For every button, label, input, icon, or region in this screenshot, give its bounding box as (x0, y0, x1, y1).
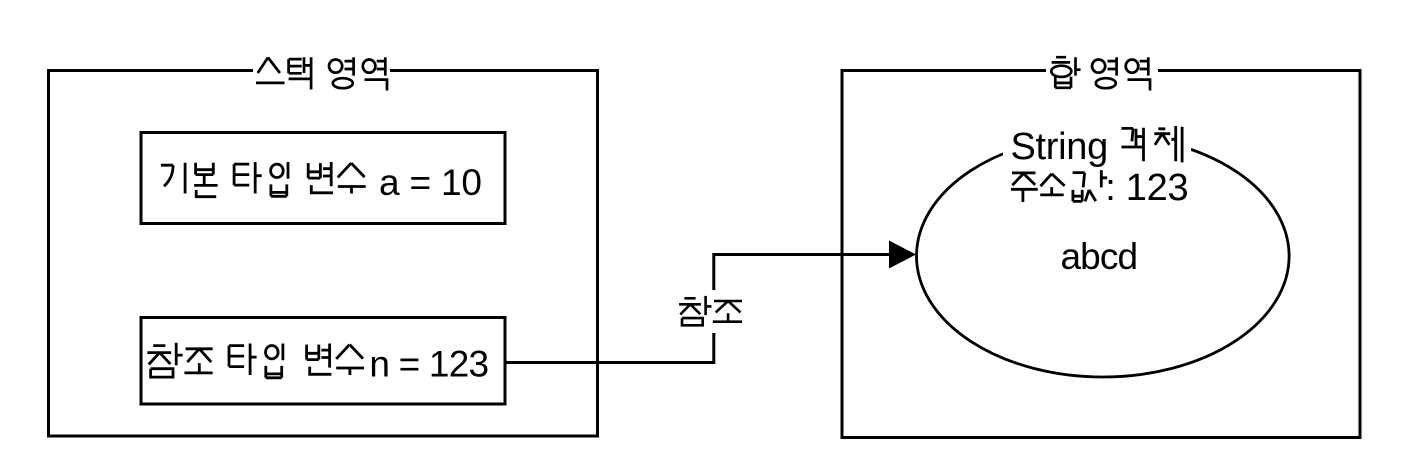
svg-text:: 123: : 123 (1105, 167, 1188, 209)
svg-text:a = 10: a = 10 (379, 162, 482, 203)
svg-text:String: String (1011, 126, 1108, 168)
svg-text:n = 123: n = 123 (369, 344, 488, 385)
svg-text:abcd: abcd (1061, 236, 1138, 277)
